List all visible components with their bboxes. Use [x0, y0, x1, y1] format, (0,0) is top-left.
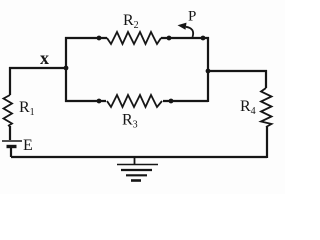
switch P wiper arc — [186, 27, 193, 37]
wire: top branch right segment — [161, 37, 209, 39]
wire: bottom rail — [11, 156, 267, 158]
battery E short thick plate — [7, 145, 17, 148]
wire: left vertical upper segment (top of R1) — [9, 67, 11, 95]
resistor R2 zigzag — [107, 32, 161, 44]
wire: left horizontal from battery branch to node x — [9, 67, 66, 69]
svg-text:R3: R3 — [122, 112, 138, 131]
battery E long plate — [2, 140, 22, 142]
switch P arrowhead — [178, 23, 187, 30]
wire: right vertical top of R4 — [265, 70, 267, 88]
junction dot left of R3 — [97, 99, 102, 104]
resistor R4 zigzag — [261, 88, 272, 127]
svg-text:R1: R1 — [19, 99, 35, 118]
wire: right vertical below R4 to bottom rail — [266, 127, 268, 158]
resistor R3 zigzag (drawn over bottom branch) — [106, 94, 163, 108]
ground bar 4 — [131, 179, 141, 182]
wire: bottom branch — [65, 100, 208, 102]
wire: right vertical between branches — [207, 37, 209, 102]
resistor R1 zigzag — [4, 95, 13, 126]
ground stub — [134, 157, 136, 164]
ground bar 3 — [126, 174, 147, 176]
wire: T branch to right side — [208, 70, 267, 72]
ground bar 2 — [121, 169, 152, 171]
junction dot near top-right corner — [201, 36, 206, 41]
wire: left vertical between R1 and battery — [9, 126, 11, 140]
svg-text:x: x — [40, 48, 49, 68]
svg-text:E: E — [23, 137, 33, 154]
node x junction dot — [64, 66, 69, 71]
junction dot at T to output — [206, 69, 211, 74]
junction dot left of R2 — [97, 36, 102, 41]
junction dot right of R3 — [169, 99, 174, 104]
junction dot right of R2 — [167, 36, 172, 41]
ground bar 1 — [117, 164, 158, 166]
wire: top branch left segment — [65, 37, 107, 39]
svg-text:R2: R2 — [123, 12, 139, 31]
svg-text:R4: R4 — [240, 98, 256, 117]
wire: left vertical below battery to bottom rail — [10, 148, 12, 157]
svg-text:P: P — [188, 9, 196, 25]
wire: center vertical at node x — [65, 37, 67, 102]
